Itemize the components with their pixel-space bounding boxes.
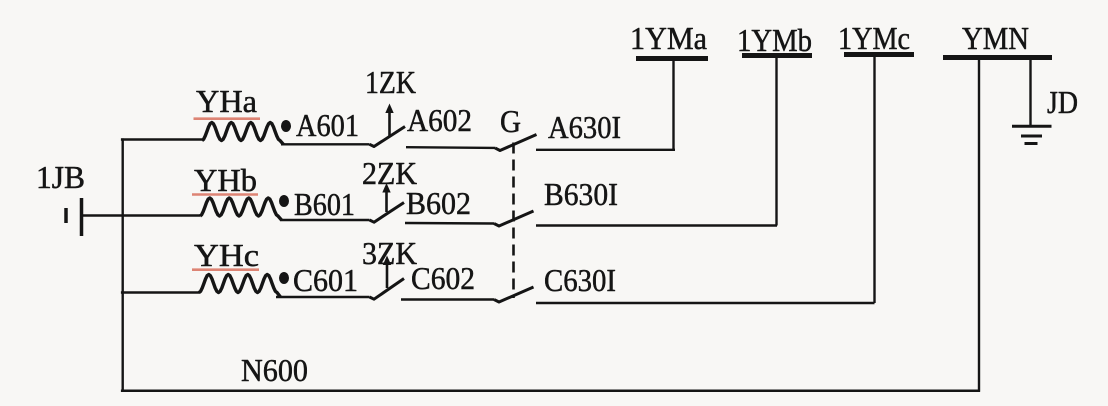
switch 3ZK blade — [370, 279, 405, 300]
wire 1JB to winding YHb — [83, 214, 200, 216]
polarity dot node C601 — [279, 272, 289, 284]
ground JD line 3 — [1025, 142, 1038, 145]
svg-text:G: G — [500, 103, 521, 139]
svg-text:1YMb: 1YMb — [737, 22, 812, 58]
polarity dot node B601 — [279, 195, 289, 207]
wire branch A from bus to winding YHa — [121, 138, 203, 140]
connector 1JB symbol short bar — [64, 208, 68, 223]
svg-text:A602: A602 — [407, 102, 472, 138]
svg-text:1YMa: 1YMa — [630, 20, 707, 56]
switch 2ZK blade — [370, 203, 405, 223]
svg-text:N600: N600 — [241, 352, 308, 388]
wire 1YMc drop — [873, 57, 875, 303]
underline YHc (red) — [192, 268, 259, 271]
svg-text:1JB: 1JB — [36, 159, 85, 195]
wire A601 to switch 1ZK — [281, 143, 370, 145]
underline YHa (red) — [194, 117, 261, 120]
svg-text:YHa: YHa — [196, 83, 257, 119]
wire A630I to 1YMa drop — [536, 149, 675, 151]
svg-text:C602: C602 — [411, 260, 475, 296]
gang link G dashed — [512, 143, 515, 299]
polarity dot node A601 — [281, 120, 291, 132]
switch 2ZK arrow — [385, 190, 388, 212]
svg-text:1ZK: 1ZK — [365, 64, 416, 100]
wire branch C from bus to winding YHc — [121, 291, 200, 293]
contact G blade phase B — [494, 211, 534, 226]
wire left bus vertical — [121, 138, 123, 391]
svg-text:YMN: YMN — [962, 20, 1029, 56]
busbar 1YMc — [844, 52, 914, 57]
svg-text:B601: B601 — [294, 186, 355, 222]
wire YMN drop to N600 — [978, 60, 980, 392]
switch 3ZK arrow — [386, 260, 389, 288]
wire C602 to contact G — [401, 298, 494, 300]
svg-text:JD: JD — [1047, 84, 1078, 120]
busbar 1YMb — [742, 53, 812, 58]
svg-text:1YMc: 1YMc — [838, 20, 910, 56]
ground JD line 1 — [1012, 125, 1052, 128]
wire B602 to contact G — [405, 222, 494, 225]
svg-text:A601: A601 — [296, 107, 359, 143]
wire 1YMa drop — [672, 61, 674, 150]
contact G blade phase A — [495, 135, 537, 151]
svg-text:C630I: C630I — [544, 262, 616, 298]
svg-text:A630I: A630I — [548, 109, 621, 145]
svg-text:YHb: YHb — [194, 162, 257, 198]
winding YHc — [199, 275, 281, 298]
winding YHb — [200, 198, 282, 220]
winding YHa — [202, 123, 284, 145]
connector 1JB symbol long bar — [80, 198, 84, 236]
wire B630I to 1YMb drop — [536, 224, 777, 226]
switch 1ZK arrow — [388, 108, 391, 136]
wire A602 to contact G — [406, 146, 495, 149]
ground JD line 2 — [1021, 135, 1042, 138]
switch 1ZK blade — [370, 127, 406, 147]
svg-text:3ZK: 3ZK — [362, 235, 417, 271]
svg-text:B630I: B630I — [544, 176, 618, 212]
contact G blade phase C — [494, 287, 534, 302]
wire N600 bottom — [121, 389, 980, 392]
svg-text:YHc: YHc — [194, 237, 259, 273]
svg-text:C601: C601 — [293, 262, 358, 298]
wire YMN drop to ground — [1029, 60, 1031, 126]
busbar 1YMa — [636, 56, 708, 61]
busbar YMN — [943, 55, 1052, 60]
wire C601 to switch 3ZK — [276, 296, 370, 298]
underline YHb (red) — [192, 193, 258, 196]
svg-text:B602: B602 — [406, 185, 471, 221]
wire B601 to switch 2ZK — [280, 219, 370, 221]
wire C630I to 1YMc drop — [536, 302, 875, 304]
wire 1YMb drop — [775, 58, 777, 226]
